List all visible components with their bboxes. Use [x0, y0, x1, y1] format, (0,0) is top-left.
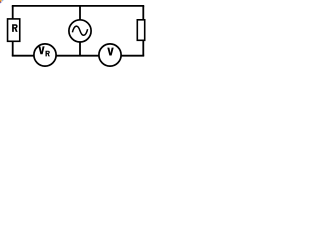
wire: bottom horizontal: [12, 55, 144, 57]
wire: source bottom stem: [79, 42, 81, 56]
label VR: [38, 46, 49, 56]
voltmeter VR (circle): [34, 44, 56, 66]
ac source U1 (circle): [69, 20, 91, 42]
ac source U1 sine symbol: [72, 26, 87, 35]
label R (value of resistor R1): [12, 24, 18, 32]
resistor R1 (box, left): [8, 19, 20, 41]
wire: source top stem: [79, 6, 81, 21]
wire: right vertical lower: [142, 41, 144, 56]
label V: [107, 48, 113, 56]
wire: left vertical upper: [12, 6, 14, 20]
wire: left vertical lower: [12, 42, 14, 56]
resistor R2 (box, right, unlabelled): [137, 20, 144, 41]
wire: right vertical upper: [142, 6, 144, 20]
voltmeter V (circle): [99, 44, 121, 66]
wire: top horizontal: [12, 5, 144, 7]
